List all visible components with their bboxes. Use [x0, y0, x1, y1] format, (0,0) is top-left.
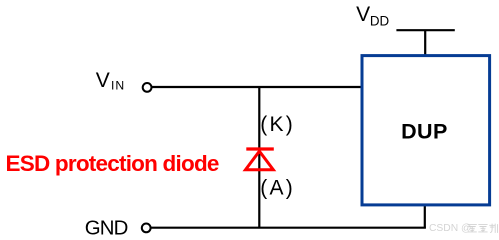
svg-text:(K): (K) — [260, 113, 295, 136]
svg-text:CSDN @: CSDN @ — [429, 223, 472, 234]
svg-text:(A): (A) — [260, 177, 295, 200]
svg-text:DD: DD — [370, 14, 390, 29]
svg-text:V: V — [356, 3, 370, 26]
svg-text:V: V — [96, 69, 110, 92]
svg-text:GND: GND — [85, 217, 128, 239]
svg-text:ESD protection diode: ESD protection diode — [6, 151, 219, 176]
svg-text:IN: IN — [111, 79, 125, 93]
svg-text:DUP: DUP — [401, 119, 448, 143]
